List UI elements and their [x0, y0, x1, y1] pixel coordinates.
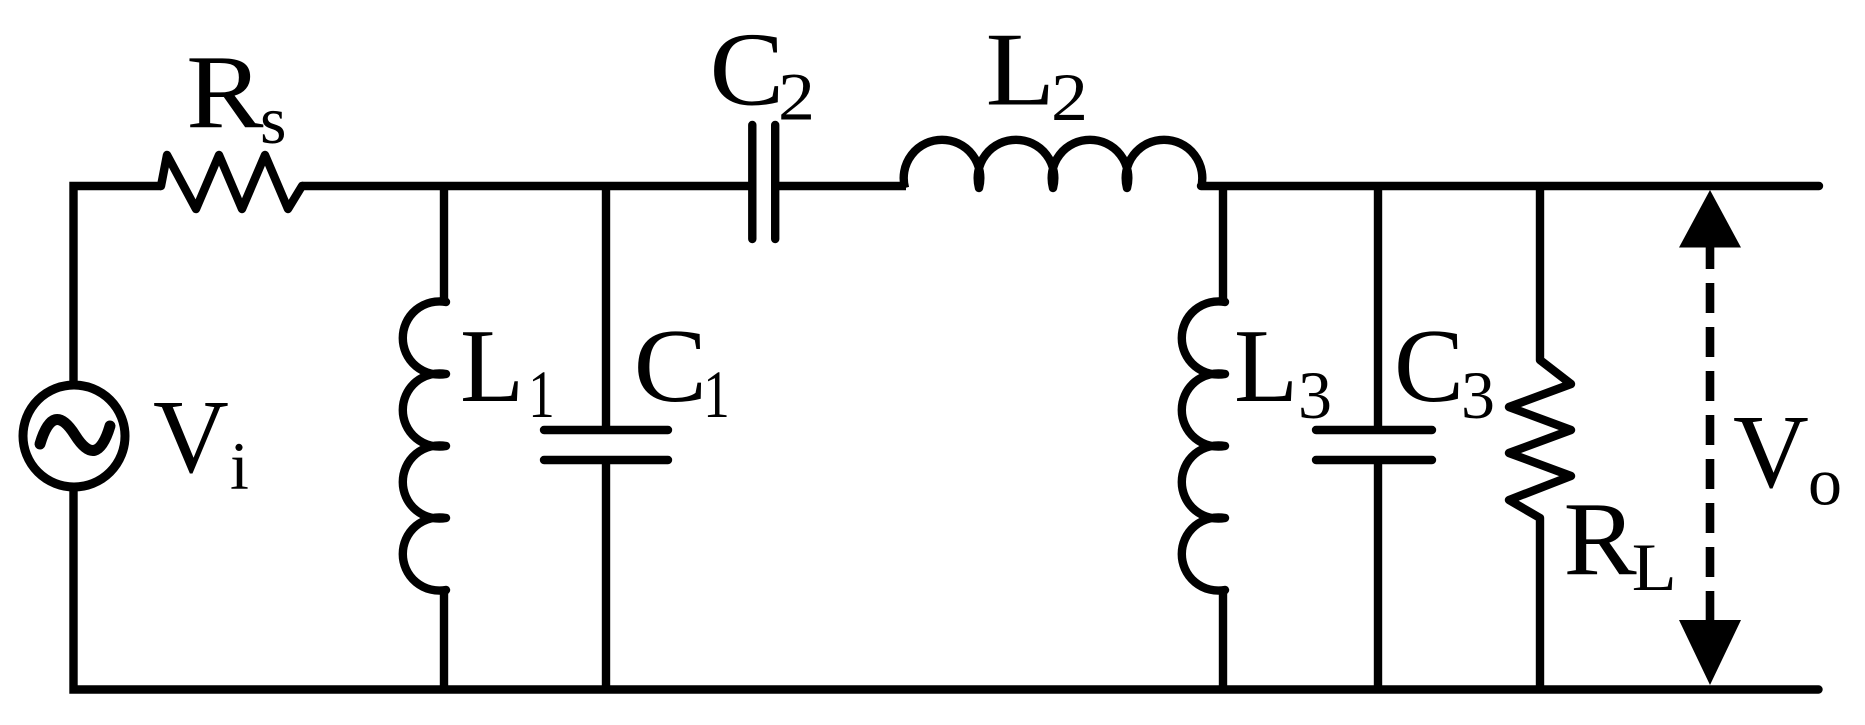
- label Rs: [186, 33, 286, 158]
- capacitor C3 (with branch wires): [1316, 186, 1432, 690]
- svg-text:2: 2: [1051, 59, 1088, 135]
- label C3: [1394, 307, 1495, 433]
- svg-text:s: s: [260, 82, 286, 158]
- Vo arrow: bottom arrowhead: [1679, 620, 1741, 685]
- svg-text:1: 1: [528, 356, 555, 432]
- wire: left column + top wire to Rs: [74, 186, 162, 385]
- svg-text:L: L: [986, 11, 1055, 128]
- inductor L2: [904, 140, 1203, 188]
- svg-text:3: 3: [1461, 357, 1495, 433]
- svg-text:C: C: [1394, 307, 1464, 424]
- svg-text:R: R: [1564, 480, 1637, 597]
- svg-text:V: V: [1733, 393, 1809, 510]
- label L2: [986, 11, 1088, 136]
- svg-text:C: C: [710, 11, 785, 128]
- wire: L2 to right end (top): [1201, 182, 1819, 190]
- voltage source Vi: [23, 385, 125, 487]
- svg-text:1: 1: [703, 356, 730, 432]
- svg-text:3: 3: [1298, 357, 1332, 433]
- inductor L1 (with branch wires): [403, 186, 446, 690]
- svg-text:C: C: [634, 307, 708, 424]
- svg-text:2: 2: [778, 59, 815, 135]
- resistor Rs: [161, 155, 302, 209]
- svg-text:R: R: [186, 33, 263, 150]
- wire: C2 to L2: [779, 182, 906, 190]
- resistor RL (with branch wires): [1509, 186, 1571, 690]
- label RL: [1564, 480, 1677, 605]
- svg-text:L: L: [1234, 307, 1298, 424]
- label Vo: [1733, 393, 1842, 520]
- label L1: [460, 307, 555, 432]
- label C1: [634, 307, 730, 432]
- capacitor C2: [752, 125, 775, 239]
- svg-text:o: o: [1808, 444, 1842, 520]
- svg-text:V: V: [153, 378, 229, 495]
- wire: source bottom + bottom rail: [74, 487, 1819, 690]
- svg-text:i: i: [230, 428, 249, 504]
- capacitor C1 (with branch wires): [544, 186, 668, 690]
- label Vi: [153, 378, 249, 504]
- label L3: [1234, 307, 1332, 433]
- label C2: [710, 11, 816, 135]
- svg-text:L: L: [1632, 529, 1677, 605]
- wire: Rs to C2: [302, 182, 749, 190]
- svg-text:L: L: [460, 307, 524, 424]
- Vo arrow: top arrowhead: [1679, 190, 1741, 248]
- inductor L3 (with branch wires): [1182, 186, 1225, 690]
- Vo arrow: dashed line: [1706, 248, 1715, 621]
